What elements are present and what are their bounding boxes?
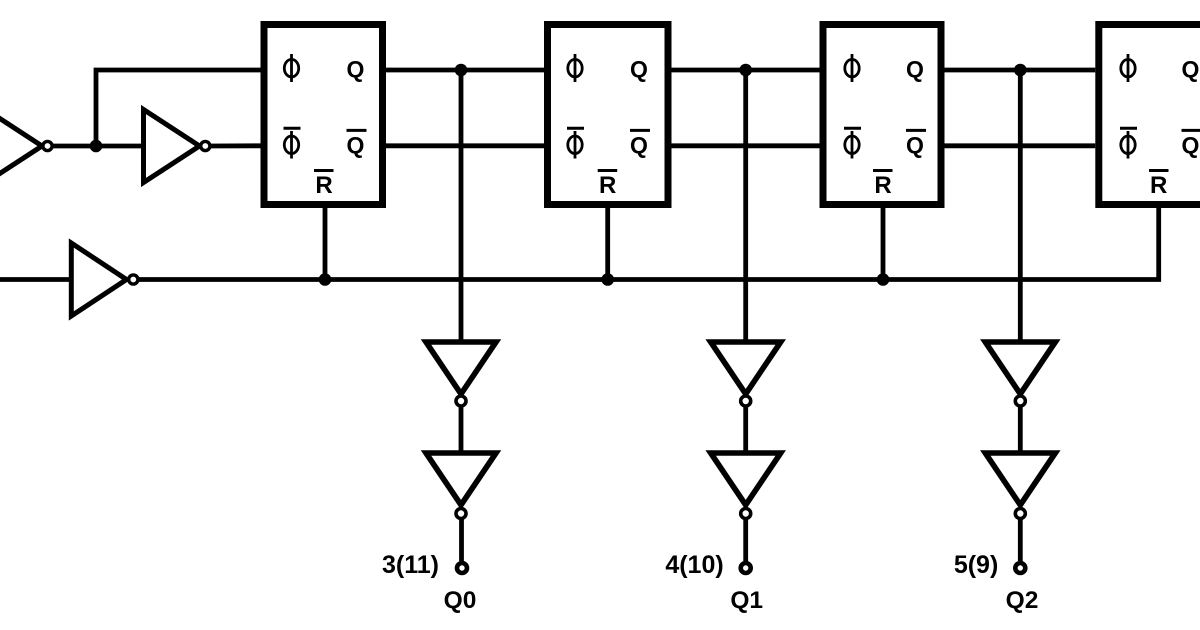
- svg-text:Q: Q: [1182, 132, 1200, 158]
- buffer C2b (Q1 lower inverter): [711, 453, 781, 505]
- buffer C3b (Q2 lower inverter): [985, 453, 1055, 505]
- wire: inv A2 output to FF1 phibar: [210, 143, 261, 148]
- svg-text:Q: Q: [347, 132, 365, 158]
- wire: reset bus to FF4 R pin: [139, 208, 1159, 280]
- wire: Q0 drop from node to buffer: [459, 70, 464, 344]
- pin label phi U4: [1121, 54, 1135, 82]
- bubble of C3b: [1015, 509, 1025, 519]
- wire: C1b to Q0 terminal: [459, 518, 464, 561]
- wire: clock line from inv A1 bubble to node, to inv A2: [52, 144, 144, 149]
- inverter A2 (to phibar of FF1): [144, 110, 200, 183]
- svg-text:R: R: [1150, 172, 1167, 199]
- pin label Rbar U2: [598, 169, 618, 172]
- svg-text:Q2: Q2: [1006, 587, 1039, 614]
- wire: Q bus y=70 FF3 to FF4: [945, 68, 1096, 73]
- bubble of C3a: [1015, 396, 1025, 406]
- node: Q2 tap junction: [1014, 64, 1027, 77]
- wire: FF3 R pin: [881, 208, 886, 280]
- svg-text:Q: Q: [347, 56, 365, 82]
- wire: Q bus y=70 FF1 to FF2: [386, 68, 544, 73]
- terminal Q0: [457, 563, 467, 573]
- svg-text:Q: Q: [630, 56, 648, 82]
- node: reset junction FF3: [877, 273, 890, 286]
- flip-flop U4 box (clipped at right edge): [1099, 25, 1200, 205]
- pin label Qbar U3: [906, 129, 926, 132]
- flip-flop U3 box: [823, 25, 941, 205]
- wire: C2a to C2b: [743, 406, 748, 453]
- svg-text:Q: Q: [906, 132, 924, 158]
- wire: C1a to C1b: [459, 406, 464, 453]
- pin label Qbar U4: [1182, 129, 1200, 132]
- wire: FF1 R pin: [323, 208, 328, 280]
- pin label phibar U3: [844, 128, 861, 158]
- wire: FF2 R pin: [605, 208, 610, 280]
- bubble of C1a: [456, 396, 466, 406]
- labels flip-flop U1: [284, 54, 367, 199]
- pin label phibar U1: [284, 128, 301, 158]
- flip-flop U2 box: [548, 25, 669, 205]
- wire: Qbar bus y=146 FF2 to FF3: [672, 143, 820, 148]
- pin label Qbar U2: [630, 129, 650, 132]
- wire: Qbar bus y=146 FF3 to FF4: [945, 143, 1096, 148]
- svg-text:Q1: Q1: [730, 587, 763, 614]
- svg-text:R: R: [599, 172, 616, 199]
- labels flip-flop U2: [567, 54, 650, 199]
- bubble of inverter A2: [201, 141, 210, 150]
- bubble of C2b: [741, 509, 751, 519]
- bubble of C1b: [456, 509, 466, 519]
- svg-text:3(11): 3(11): [382, 551, 439, 579]
- node: Q0 tap junction: [455, 64, 468, 77]
- wire: reset input from left edge: [0, 277, 71, 282]
- svg-text:R: R: [874, 172, 891, 199]
- flip-flop U1 box: [264, 25, 383, 205]
- svg-text:R: R: [315, 172, 332, 199]
- pin label Qbar U1: [347, 129, 367, 132]
- pin label phi U1: [284, 54, 298, 82]
- svg-text:Q: Q: [906, 56, 924, 82]
- wire: C3b to Q2 terminal: [1018, 518, 1023, 561]
- pin label phi U3: [845, 54, 859, 82]
- svg-text:Q0: Q0: [444, 587, 477, 614]
- svg-text:4(10): 4(10): [665, 551, 723, 579]
- pin label Rbar U4: [1149, 169, 1169, 172]
- node: Q1 tap junction: [739, 64, 752, 77]
- terminal Q2: [1015, 563, 1025, 573]
- pin label Rbar U1: [314, 169, 334, 172]
- buffer C1b (Q0 lower inverter): [426, 453, 496, 505]
- svg-text:5(9): 5(9): [954, 551, 998, 579]
- pin label Rbar U3: [873, 169, 893, 172]
- wire: Q2 drop from node to buffer: [1018, 70, 1023, 344]
- node: clock junction: [90, 140, 103, 153]
- labels flip-flop U3: [844, 54, 926, 199]
- pin label phi U2: [568, 54, 582, 82]
- inverter A1 (clock input, clipped at left edge): [0, 110, 42, 183]
- buffer C2a (Q1 upper inverter): [711, 342, 781, 394]
- bubble of inverter A1: [43, 141, 52, 150]
- wire: C3a to C3b: [1018, 406, 1023, 453]
- pin label phibar U2: [567, 128, 584, 158]
- pin label phibar U4: [1120, 128, 1137, 158]
- buffer C1a (Q0 upper inverter): [426, 342, 496, 394]
- inverter B1 (reset buffer): [71, 243, 126, 316]
- terminal Q1: [741, 563, 751, 573]
- wire: Qbar bus y=146 FF1 to FF2: [386, 143, 544, 148]
- node: reset junction FF1: [319, 273, 332, 286]
- wire: Q bus y=70 FF2 to FF3: [672, 68, 820, 73]
- labels flip-flop U4: [1120, 54, 1200, 199]
- bubble of inverter B1: [129, 275, 138, 284]
- wire: C2b to Q1 terminal: [743, 518, 748, 561]
- buffer C3a (Q2 upper inverter): [985, 342, 1055, 394]
- svg-text:Q: Q: [630, 132, 648, 158]
- node: reset junction FF2: [601, 273, 614, 286]
- bubble of C2a: [741, 396, 751, 406]
- wire: clock top corner feed to FF1 phi: [96, 70, 261, 148]
- wire: Q1 drop from node to buffer: [743, 70, 748, 344]
- svg-text:Q: Q: [1182, 56, 1200, 82]
